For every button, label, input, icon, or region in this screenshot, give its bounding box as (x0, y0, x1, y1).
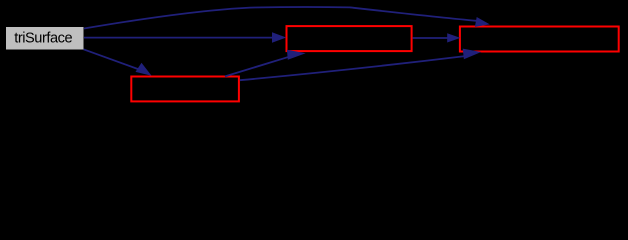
edge triSurface -> right (top curve arrow) (84, 7, 490, 28)
edge bottom -> right (long low curve arrow) (240, 49, 481, 81)
node triSurface (current node, grey box) (6, 27, 84, 50)
node middle (red box) (287, 26, 412, 51)
edge bottom -> middle (diagonal arrow) (225, 50, 306, 77)
svg-text:triSurface: triSurface (14, 31, 72, 47)
edge triSurface -> bottom (diagonal arrow) (84, 49, 152, 76)
edge middle -> right (horizontal arrow) (413, 33, 461, 42)
edge triSurface -> middle (horizontal arrow) (84, 32, 286, 42)
node right (red box) (460, 27, 619, 52)
node bottom (red box) (131, 77, 239, 102)
